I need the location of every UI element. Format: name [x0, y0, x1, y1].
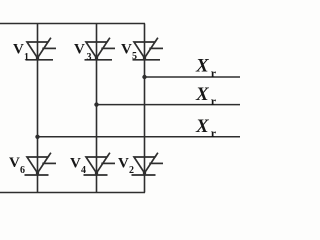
thyristor V5 [133, 38, 164, 60]
node phase c [142, 75, 146, 79]
node phase b [94, 102, 98, 106]
wire phase b to Xr [97, 104, 241, 106]
svg-text:V: V [13, 42, 24, 58]
wire leg c [144, 24, 146, 193]
svg-text:3: 3 [87, 52, 92, 63]
node phase a [35, 135, 39, 139]
svg-text:X: X [195, 116, 210, 137]
thyristor V6 [25, 153, 57, 175]
svg-text:5: 5 [132, 51, 137, 62]
svg-text:r: r [211, 94, 217, 108]
svg-text:V: V [118, 156, 129, 172]
thyristor V4 [84, 153, 116, 175]
thyristor V1 [26, 38, 57, 60]
svg-text:2: 2 [129, 165, 134, 176]
wire phase c to Xr [145, 76, 241, 78]
svg-text:V: V [121, 42, 132, 58]
svg-text:r: r [211, 66, 217, 80]
svg-text:1: 1 [24, 52, 29, 63]
wire leg b [96, 24, 98, 193]
wire phase a to Xr [38, 136, 241, 138]
thyristor V3 [85, 38, 116, 60]
svg-text:r: r [211, 126, 217, 140]
svg-text:V: V [9, 155, 20, 171]
top bus [0, 23, 145, 25]
svg-text:V: V [74, 42, 85, 58]
wire leg a [37, 24, 39, 193]
thyristor V2 [132, 153, 164, 175]
svg-text:V: V [70, 156, 81, 172]
bottom bus [0, 192, 145, 194]
svg-text:6: 6 [20, 165, 25, 176]
svg-text:4: 4 [81, 165, 86, 176]
svg-text:X: X [195, 84, 210, 105]
svg-text:X: X [195, 56, 210, 77]
